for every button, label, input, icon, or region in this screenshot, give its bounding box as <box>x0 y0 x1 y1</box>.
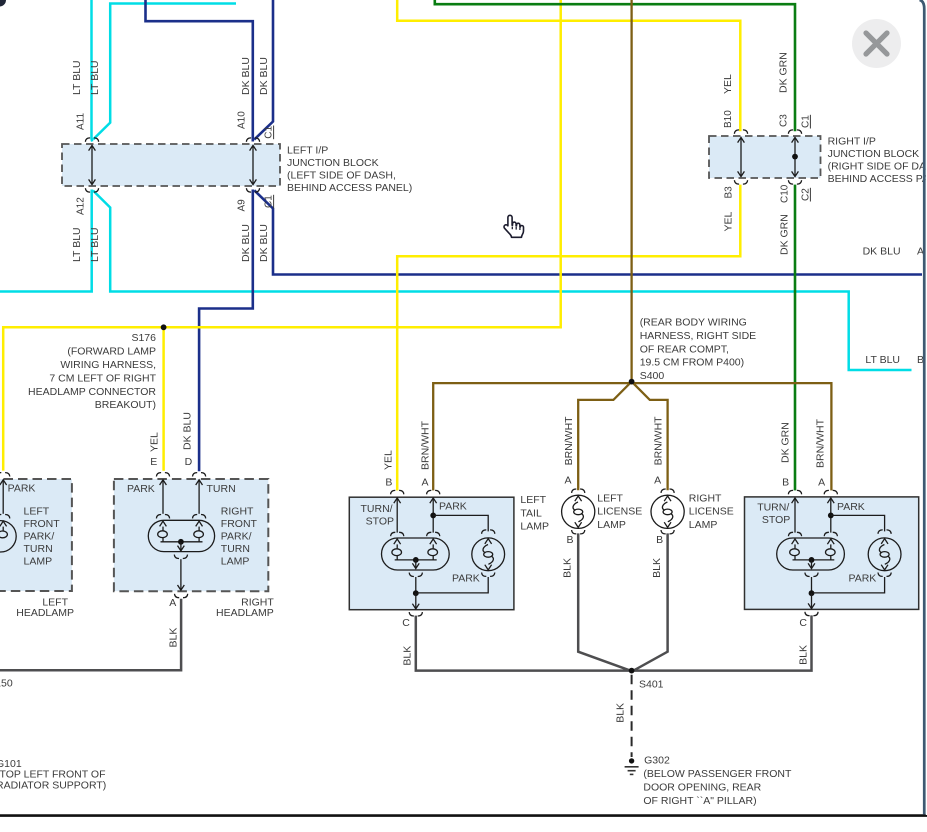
svg-text:HARNESS, RIGHT SIDE: HARNESS, RIGHT SIDE <box>640 330 757 342</box>
svg-text:STOP: STOP <box>366 515 394 527</box>
svg-text:DOOR OPENING, REAR: DOOR OPENING, REAR <box>643 782 761 794</box>
right tail lamp stadium housing <box>777 538 845 570</box>
wire DK BLU #1 from top edge, elbow right, down into pin A10 <box>146 0 253 142</box>
wire BLK right license lamp B down to splice S401 <box>634 533 667 670</box>
left tail lamp park bulb return to junction <box>417 577 488 593</box>
svg-text:B: B <box>385 476 392 488</box>
wire YEL below right block: pin B3 down to y=256.3, left to x=397.2, down to left tail lamp pin B <box>397 185 740 491</box>
pin C3 connector hooks <box>788 130 801 134</box>
svg-text:A12: A12 <box>76 197 87 215</box>
svg-text:LAMP: LAMP <box>689 519 718 531</box>
left license lamp E-LIC <box>572 489 585 493</box>
left tail lamp junction to pin C <box>415 577 417 593</box>
svg-text:BLK: BLK <box>615 703 627 723</box>
panel right border <box>920 0 925 815</box>
right tail lamp pin B connector <box>788 490 801 494</box>
pin B10-B3 through-arrow <box>740 138 742 177</box>
svg-text:LAMP: LAMP <box>520 521 549 533</box>
svg-text:LAMP: LAMP <box>24 555 53 567</box>
left tail lamp E-LT <box>349 497 514 610</box>
right tail lamp park branch from pin A <box>828 513 834 519</box>
svg-text:PARK/: PARK/ <box>24 531 55 543</box>
svg-text:LEFT: LEFT <box>24 506 50 518</box>
svg-text:YEL: YEL <box>382 450 394 470</box>
svg-text:PARK: PARK <box>849 572 877 584</box>
svg-text:RIGHT I/P: RIGHT I/P <box>828 136 876 148</box>
svg-text:A: A <box>654 475 661 487</box>
svg-text:PARK: PARK <box>127 483 155 495</box>
left I/P junction block U-LIP <box>62 144 280 186</box>
svg-text:S401: S401 <box>639 679 664 691</box>
wire BRN/WHT fork to right license lamp A <box>632 382 668 491</box>
svg-text:DK GRN: DK GRN <box>778 214 790 255</box>
svg-text:TURN: TURN <box>221 543 250 555</box>
svg-text:LT BLU: LT BLU <box>865 354 900 366</box>
wire BLK from right front lamp pin A down and left to G101 off left edge <box>0 599 181 671</box>
wire BRN/WHT main run: left tail lamp A up, across y=383, down to right tail lamp A <box>433 383 831 490</box>
svg-text:PARK/: PARK/ <box>221 531 252 543</box>
wire LT BLU #2 below block: diverges from A12, down, long horizontal to right side, to LT BLU B stub <box>93 191 912 371</box>
svg-text:BLK: BLK <box>401 646 413 666</box>
svg-text:DK BLU: DK BLU <box>863 245 901 257</box>
svg-text:A11: A11 <box>76 113 87 130</box>
wire DK BLU #2 from top edge merging into pin A10 <box>254 0 273 140</box>
svg-text:(BELOW PASSENGER FRONT: (BELOW PASSENGER FRONT <box>643 768 792 780</box>
svg-text:C3: C3 <box>779 114 790 127</box>
svg-text:LT BLU: LT BLU <box>71 227 83 262</box>
svg-text:C10: C10 <box>780 184 791 203</box>
right front lamp internal bus and junction <box>161 541 203 543</box>
svg-text:HEADLAMP: HEADLAMP <box>16 607 74 619</box>
left front lamp coil <box>2 527 4 531</box>
svg-text:OF RIGHT ``A" PILLAR): OF RIGHT ``A" PILLAR) <box>643 795 756 807</box>
pin B3 connector hooks <box>734 180 747 184</box>
svg-text:LAMP: LAMP <box>597 519 626 531</box>
svg-text:BLK: BLK <box>651 558 663 578</box>
svg-text:BLK: BLK <box>167 628 179 648</box>
splice S176 <box>161 324 167 330</box>
wire BLK bus: left tail lamp C down, along y=670.6, up to right tail lamp C <box>416 615 812 670</box>
svg-text:C1: C1 <box>264 125 275 138</box>
svg-text:HEADLAMP CONNECTOR: HEADLAMP CONNECTOR <box>28 386 156 398</box>
svg-text:PARK: PARK <box>439 500 467 512</box>
svg-text:DK GRN: DK GRN <box>779 422 791 463</box>
wire LT BLU #2 from top horizontal, merging into pin A11 <box>93 4 236 140</box>
right front lamp stadium housing <box>148 520 214 551</box>
right front lamp lead to pin A <box>180 559 182 584</box>
left front lamp stadium housing (partial) <box>0 521 16 552</box>
pin A12 connector hooks <box>85 188 98 192</box>
svg-text:A9: A9 <box>237 199 248 212</box>
left front lamp pin hooks <box>0 473 10 477</box>
svg-text:(FORWARD LAMP: (FORWARD LAMP <box>67 346 156 358</box>
right tail lamp junction to pin C <box>811 577 813 593</box>
right license lamp E-LIC <box>661 489 674 493</box>
svg-text:C: C <box>402 617 410 629</box>
right tail lamp pin A connector <box>824 490 837 494</box>
right tail lamp turn/stop filaments <box>788 532 801 536</box>
svg-text:S400: S400 <box>640 370 665 382</box>
svg-text:TURN/: TURN/ <box>757 502 789 514</box>
right tail lamp park bulb <box>878 530 891 534</box>
svg-text:TURN: TURN <box>24 543 53 555</box>
svg-text:RIGHT: RIGHT <box>221 506 254 518</box>
svg-text:STOP: STOP <box>762 514 790 526</box>
left front lamp pin arrow and lead <box>0 480 7 485</box>
svg-text:FRONT: FRONT <box>24 518 61 530</box>
right tail lamp park bulb return to junction <box>813 577 885 593</box>
mouse hand cursor <box>504 215 523 237</box>
wire DK GRN below right block: pin C10 down to right tail lamp pin B <box>794 185 797 491</box>
svg-text:A: A <box>564 475 571 487</box>
left tail lamp internal bus <box>395 559 437 561</box>
wire YEL loop top: from top edge down to y=20.8, right to x=740.3, down into right block pin B10 <box>397 0 740 131</box>
left tail lamp park bulb <box>482 530 495 534</box>
wire DK BLU #1 below block: A9 down, jog left at y=308.5, down to lamp pin D <box>199 190 253 472</box>
svg-text:BEHIND ACCESS PANEL): BEHIND ACCESS PANEL) <box>287 182 412 194</box>
wire BLK dashed from S401 down to ground G302 <box>631 675 633 757</box>
svg-text:B: B <box>656 534 663 546</box>
svg-text:(LEFT SIDE OF DASH,: (LEFT SIDE OF DASH, <box>287 169 396 181</box>
svg-text:B10: B10 <box>723 110 734 128</box>
svg-text:(RIGHT SIDE OF DASH,: (RIGHT SIDE OF DASH, <box>828 160 927 172</box>
right tail lamp internal bus <box>793 559 835 561</box>
svg-text:TURN: TURN <box>207 483 236 495</box>
svg-text:PARK: PARK <box>452 572 480 584</box>
svg-text:DK BLU: DK BLU <box>258 57 270 95</box>
splice S400 <box>629 379 635 385</box>
pin C10 connector hooks <box>788 180 801 184</box>
pin A9 connector hooks <box>246 188 259 192</box>
svg-text:LEFT: LEFT <box>597 492 623 504</box>
svg-text:G150: G150 <box>0 677 13 689</box>
wire LT BLU #1 below block: pin A12 down then left along y=291.5 to left edge <box>0 190 92 292</box>
wire BLK left license lamp B down to splice S401 <box>578 533 629 670</box>
diagram bottom border line <box>0 814 927 817</box>
svg-text:BLK: BLK <box>562 558 574 578</box>
svg-text:BEHIND ACCESS PANEL): BEHIND ACCESS PANEL) <box>828 173 927 185</box>
pin D feed with connector hooks, arrows, coil <box>193 473 206 477</box>
svg-text:TAIL: TAIL <box>520 507 542 519</box>
svg-text:RIGHT: RIGHT <box>689 492 722 504</box>
wire BRN/WHT fork to left license lamp A <box>578 382 631 491</box>
wire YEL S176 trunk: vertical from top at x=560.7 down to y=327.3 then left to x=3 and down to left front lamp <box>3 0 561 471</box>
svg-text:RADIATOR SUPPORT): RADIATOR SUPPORT) <box>0 779 106 791</box>
left tail lamp stadium housing <box>382 538 450 570</box>
wire BRN/WHT trunk from top edge down to splice S400 <box>630 0 632 379</box>
svg-text:YEL: YEL <box>723 211 735 231</box>
svg-text:JUNCTION BLOCK: JUNCTION BLOCK <box>828 148 920 160</box>
svg-text:(REAR BODY WIRING: (REAR BODY WIRING <box>640 317 747 329</box>
right front lamp output arrow through housing <box>180 542 182 551</box>
pin B10 connector hooks <box>734 130 747 134</box>
svg-text:C: C <box>799 617 807 629</box>
svg-text:DK BLU: DK BLU <box>258 224 270 262</box>
svg-text:DK BLU: DK BLU <box>182 412 194 450</box>
svg-text:WIRING HARNESS,: WIRING HARNESS, <box>60 359 156 371</box>
svg-text:FRONT: FRONT <box>221 518 258 530</box>
svg-text:C2: C2 <box>801 188 812 201</box>
svg-text:B: B <box>782 476 789 488</box>
svg-text:DK BLU: DK BLU <box>240 57 252 95</box>
svg-text:LEFT I/P: LEFT I/P <box>287 145 328 157</box>
svg-text:7 CM LEFT OF RIGHT: 7 CM LEFT OF RIGHT <box>49 372 156 384</box>
svg-text:DK GRN: DK GRN <box>777 52 789 93</box>
svg-text:BREAKOUT): BREAKOUT) <box>95 399 156 411</box>
pin A10-A9 through-arrow <box>252 146 254 185</box>
svg-text:PARK: PARK <box>837 501 865 513</box>
close button <box>852 19 901 68</box>
svg-text:OF REAR COMPT,: OF REAR COMPT, <box>640 343 729 355</box>
right front park/turn lamp E-RF <box>114 479 268 591</box>
svg-text:LAMP: LAMP <box>221 555 250 567</box>
svg-text:YEL: YEL <box>148 432 160 452</box>
svg-text:A: A <box>169 597 176 609</box>
svg-text:DK BLU: DK BLU <box>240 224 252 262</box>
pin A11-A12 through-arrow <box>91 146 93 185</box>
svg-text:E: E <box>150 456 157 468</box>
partial connector arc at top-left corner <box>0 0 6 7</box>
right tail lamp housing exit <box>811 560 813 569</box>
svg-text:LT BLU: LT BLU <box>89 60 101 95</box>
right tail lamp E-RT <box>745 497 919 610</box>
svg-text:C1: C1 <box>264 195 275 208</box>
wire DK GRN: from top edge, horizontal y=4.2, down into right block pin C3 <box>435 0 795 131</box>
pin A10 connector hooks <box>246 138 259 142</box>
svg-text:G302: G302 <box>644 755 670 767</box>
svg-text:BRN/WHT: BRN/WHT <box>419 420 431 470</box>
wire YEL branch from splice S176 down to right front lamp pin E <box>162 327 165 471</box>
svg-text:JUNCTION BLOCK: JUNCTION BLOCK <box>287 157 379 169</box>
svg-text:BRN/WHT: BRN/WHT <box>653 416 665 466</box>
splice S401 <box>629 668 635 674</box>
svg-text:C1: C1 <box>801 115 812 128</box>
svg-text:S176: S176 <box>131 332 156 344</box>
pin C3-C10 through-arrow with junction dot <box>794 138 796 177</box>
left tail lamp park branch from pin A <box>430 513 436 519</box>
left tail lamp turn/stop filaments <box>391 532 404 536</box>
svg-text:A10: A10 <box>237 111 248 129</box>
svg-text:BRN/WHT: BRN/WHT <box>563 416 575 466</box>
wire DK BLU #2 below block: diverges from A9, down to y=274.5, right to edge (DK BLU A) <box>254 190 922 274</box>
svg-text:LT BLU: LT BLU <box>71 60 83 95</box>
pin A11 connector hooks <box>85 138 98 142</box>
svg-text:HEADLAMP: HEADLAMP <box>216 607 274 619</box>
svg-text:BLK: BLK <box>797 645 809 665</box>
left tail lamp pin A connector <box>427 490 440 494</box>
svg-text:BRN/WHT: BRN/WHT <box>815 418 827 468</box>
pin E feed with connector hooks, arrows, coil <box>156 473 169 477</box>
left front park/turn lamp E-LF <box>0 479 72 591</box>
svg-text:B3: B3 <box>724 186 735 199</box>
svg-text:LT BLU: LT BLU <box>89 227 101 262</box>
svg-text:D: D <box>185 456 193 468</box>
svg-text:LICENSE: LICENSE <box>689 506 734 518</box>
svg-text:LICENSE: LICENSE <box>597 506 642 518</box>
svg-text:19.5 CM FROM P400): 19.5 CM FROM P400) <box>640 357 744 369</box>
right I/P junction block U-RIP <box>709 136 821 178</box>
svg-text:B: B <box>566 534 573 546</box>
svg-text:YEL: YEL <box>722 74 734 94</box>
left tail lamp housing exit <box>415 560 417 569</box>
left tail lamp pin B connector <box>391 490 404 494</box>
svg-text:A: A <box>818 476 825 488</box>
svg-text:TURN/: TURN/ <box>361 503 393 515</box>
svg-text:LEFT: LEFT <box>520 494 546 506</box>
svg-text:PARK: PARK <box>8 482 36 494</box>
wire LT BLU #1 vertical into left junction block pin A11 <box>90 0 93 142</box>
ground G302 <box>629 758 634 763</box>
svg-text:A: A <box>421 476 428 488</box>
